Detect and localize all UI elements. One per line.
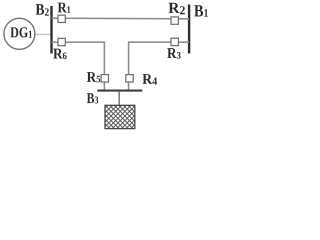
wire line2 right from B1, corner down to bus B3 xyxy=(129,42,190,89)
breaker R4 xyxy=(126,75,133,82)
load hatched box xyxy=(105,105,135,128)
wire line2 left from B2, corner down to bus B3 xyxy=(52,42,105,89)
label R6 xyxy=(53,49,66,60)
label R4 xyxy=(142,74,157,85)
wire from DG1 to bus B2 xyxy=(35,33,52,35)
label DG1 xyxy=(10,27,32,37)
label B2 xyxy=(36,4,49,15)
label B3 xyxy=(87,93,98,103)
breaker R6 xyxy=(58,38,65,45)
wire B3 to load xyxy=(118,92,120,106)
breaker R1 xyxy=(58,15,65,22)
label R1 xyxy=(58,3,71,13)
bus bar B1 xyxy=(188,5,190,54)
bus bar B3 xyxy=(97,90,142,92)
label R5 xyxy=(87,72,100,82)
breaker R3 xyxy=(171,38,178,45)
breaker R2 xyxy=(171,17,178,24)
label R2 xyxy=(168,3,184,14)
label B1 xyxy=(194,5,208,16)
bus bar B2 xyxy=(50,6,52,54)
wire line1 B2 to B1 xyxy=(52,17,190,20)
breaker R5 xyxy=(101,75,108,82)
generator DG1 xyxy=(4,18,35,49)
label R3 xyxy=(167,48,180,59)
